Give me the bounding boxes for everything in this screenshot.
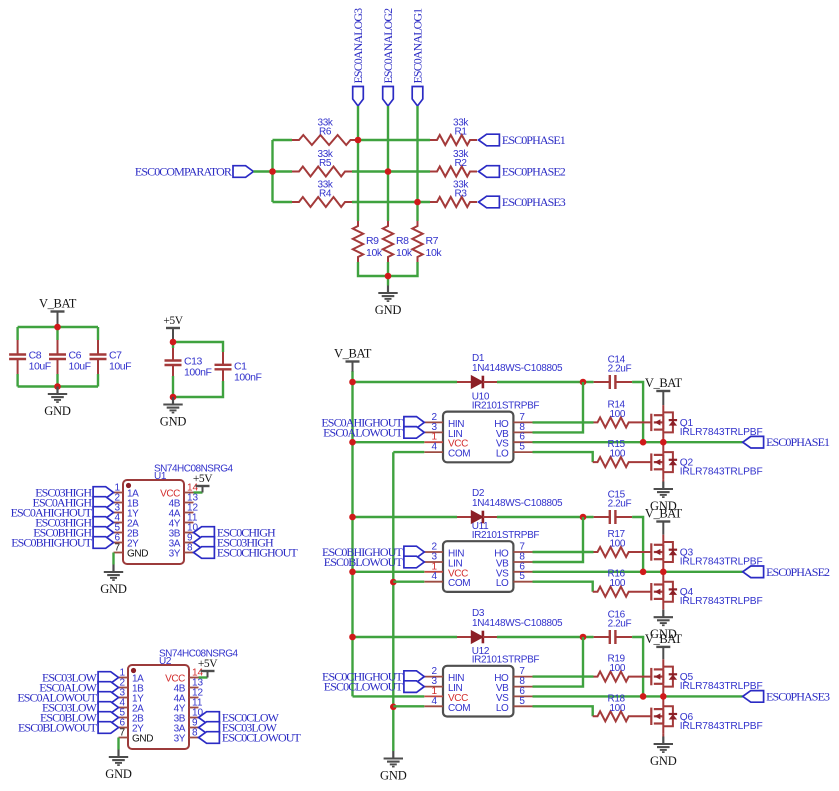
junction phase/elbow — [640, 569, 647, 576]
transistor Q3 — [651, 535, 762, 572]
svg-text:LO: LO — [496, 449, 509, 460]
resistor R9 — [353, 221, 383, 262]
svg-text:ESC0BLOWOUT: ESC0BLOWOUT — [324, 555, 404, 569]
wire V_BAT rail vertical — [351, 371, 353, 696]
node ESC0CHIGHOUT — [322, 670, 424, 684]
wire R6 node to R1 — [358, 139, 430, 141]
node ESC0ALOWOUT — [17, 691, 118, 705]
wire LO elbow — [533, 706, 593, 716]
svg-text:ESC0PHASE1: ESC0PHASE1 — [766, 435, 830, 449]
svg-text:R8: R8 — [396, 235, 409, 247]
svg-text:10uF: 10uF — [109, 361, 131, 373]
wire VB to bootstrap node — [533, 517, 584, 562]
node ESC0CLOWOUT — [199, 731, 302, 745]
svg-text:V_BAT: V_BAT — [334, 347, 372, 361]
svg-text:R7: R7 — [426, 235, 439, 247]
svg-text:ESC0CHIGHOUT: ESC0CHIGHOUT — [217, 546, 298, 560]
power V_BAT (Q1) — [645, 376, 683, 405]
svg-text:3Y: 3Y — [169, 549, 181, 560]
junction — [54, 383, 61, 390]
wire V_BAT rail to diode — [353, 636, 458, 638]
svg-text:5: 5 — [519, 442, 525, 453]
svg-text:ESC0ANALOG3: ESC0ANALOG3 — [351, 8, 365, 84]
node ESC0COMPARATOR — [135, 165, 254, 179]
svg-text:V_BAT: V_BAT — [39, 297, 77, 311]
svg-text:R3: R3 — [455, 189, 468, 200]
svg-text:GND: GND — [100, 582, 127, 596]
svg-text:LO: LO — [496, 578, 509, 589]
node ESC0CHIGH — [194, 526, 277, 540]
U2 pins and pin numbers — [119, 668, 204, 745]
capacitor C14 — [594, 355, 633, 390]
capacitor C7 — [90, 340, 132, 374]
ground (+5V caps) — [160, 397, 187, 429]
svg-text:IR2101STRPBF: IR2101STRPBF — [472, 530, 540, 541]
resistor R16 — [593, 569, 652, 597]
node ESC0ALOW — [39, 681, 118, 695]
node ESC0CLOW — [199, 711, 280, 725]
svg-text:ESC0PHASE3: ESC0PHASE3 — [502, 195, 566, 209]
svg-text:100: 100 — [610, 409, 626, 420]
svg-text:10k: 10k — [366, 247, 383, 259]
capacitor C15 — [594, 490, 633, 525]
capacitor C16 — [594, 610, 633, 645]
svg-text:IRLR7843TRLPBF: IRLR7843TRLPBF — [680, 721, 763, 732]
power +5V (caps) — [163, 315, 183, 342]
resistor R3 — [430, 180, 477, 208]
svg-text:2.2uF: 2.2uF — [608, 619, 632, 630]
junction U11 COM — [390, 579, 397, 586]
svg-text:100nF: 100nF — [234, 372, 262, 384]
diode D1 — [457, 353, 563, 388]
wire cap bank top rail — [18, 326, 98, 328]
wire bottom rail of divider — [358, 262, 418, 276]
wire diode to bootstrap cap — [497, 516, 594, 518]
resistor R19 — [594, 654, 652, 682]
diode D2 — [457, 488, 563, 523]
node ESC03HIGH — [194, 536, 275, 550]
svg-text:7: 7 — [114, 543, 120, 554]
svg-text:R1: R1 — [455, 127, 468, 138]
svg-text:4: 4 — [431, 696, 437, 707]
svg-text:8: 8 — [192, 728, 198, 739]
node ESC0CLOWOUT — [324, 680, 425, 694]
svg-text:100: 100 — [610, 449, 626, 460]
svg-text:R5: R5 — [319, 158, 332, 169]
junction diode row/V_BAT rail — [349, 634, 356, 641]
resistor R17 — [594, 529, 652, 557]
svg-text:GND: GND — [650, 499, 677, 513]
svg-text:IR2101STRPBF: IR2101STRPBF — [472, 655, 540, 666]
svg-text:ESC0ALOWOUT: ESC0ALOWOUT — [323, 425, 403, 439]
wire to R4 — [273, 201, 293, 203]
power V_BAT (cap bank) — [39, 297, 77, 328]
wire ESC0ANALOG3 vertical — [357, 106, 359, 221]
svg-text:COM: COM — [448, 578, 470, 589]
wire to R6 — [273, 139, 293, 141]
junction VCC/V_BAT rail — [349, 569, 356, 576]
svg-text:100: 100 — [610, 663, 626, 674]
power +5V (U2) — [198, 658, 218, 678]
wire VCC to V_BAT rail — [353, 441, 425, 443]
junction — [355, 137, 362, 144]
node ESC0BHIGHOUT — [11, 536, 113, 550]
resistor R18 — [593, 693, 652, 721]
node ESC0ANALOG1 — [411, 8, 425, 106]
junction phase/elbow — [640, 693, 647, 700]
node ESC0PHASE1 — [743, 435, 830, 449]
svg-text:R6: R6 — [319, 127, 332, 138]
node ESC0PHASE3 (top) — [479, 195, 566, 209]
wire pin14 to +5V — [194, 491, 203, 493]
U1 pins and pin numbers — [114, 483, 199, 560]
wire LO elbow — [533, 582, 593, 592]
node ESC0CHIGHOUT — [194, 546, 299, 560]
wire HO to gate resistor — [533, 551, 594, 553]
node ESC0PHASE2 — [743, 565, 830, 579]
svg-text:R9: R9 — [366, 235, 379, 247]
transistor Q6 — [651, 696, 762, 733]
junction — [170, 394, 177, 401]
wire bootstrap cap to phase elbow — [632, 517, 643, 572]
capacitor C6 — [49, 340, 91, 374]
wire C13 bottom stub — [172, 376, 174, 397]
node ESC0ANALOG2 — [381, 8, 395, 106]
node ESC03LOW — [42, 671, 119, 685]
junction — [269, 168, 276, 175]
ground (U2) — [105, 750, 132, 782]
svg-text:ESC0BLOWOUT: ESC0BLOWOUT — [18, 721, 98, 735]
transistor Q2 — [651, 442, 762, 479]
wire +5V bottom rail — [173, 381, 223, 397]
wire pin14 to +5V — [199, 676, 208, 678]
wire phase rail ESC0PHASE2 — [533, 571, 743, 573]
junction VB bootstrap — [580, 514, 587, 521]
svg-text:100: 100 — [610, 539, 626, 550]
resistor R6 — [292, 118, 358, 146]
node ESC03LOW — [199, 721, 278, 735]
diode D3 — [457, 608, 563, 643]
junction diode row/V_BAT rail — [349, 514, 356, 521]
wire ESC0ANALOG2 vertical — [387, 106, 389, 221]
wire VCC to V_BAT rail — [353, 695, 425, 697]
wire phase rail ESC0PHASE3 — [533, 695, 743, 697]
svg-text:4: 4 — [431, 571, 437, 582]
svg-text:8: 8 — [187, 543, 193, 554]
svg-text:2.2uF: 2.2uF — [608, 364, 632, 375]
wire HO to gate resistor — [533, 675, 594, 677]
svg-text:7: 7 — [119, 728, 125, 739]
wire cap bank bottom rail — [18, 385, 98, 387]
svg-text:+5V: +5V — [163, 315, 183, 327]
svg-text:ESC0PHASE2: ESC0PHASE2 — [766, 565, 830, 579]
wire diode to bootstrap cap — [497, 381, 594, 383]
svg-text:ESC0PHASE3: ESC0PHASE3 — [766, 689, 830, 703]
svg-text:GND: GND — [650, 627, 677, 641]
svg-text:GND: GND — [375, 303, 402, 317]
junction U12 COM — [390, 704, 397, 711]
wire COM to COM rail — [393, 705, 424, 707]
ground (U1) — [100, 565, 127, 597]
ground (divider) — [375, 286, 402, 318]
power V_BAT (Q5) — [645, 632, 683, 659]
wire C6 bottom stub — [56, 374, 58, 387]
node ESC0AHIGHOUT — [11, 506, 114, 520]
node ESC0BLOW — [40, 711, 119, 725]
svg-text:ESC0BHIGHOUT: ESC0BHIGHOUT — [11, 536, 92, 550]
wire phase rail ESC0PHASE1 — [533, 441, 743, 443]
svg-text:10uF: 10uF — [29, 361, 51, 373]
op-amp U1 (quad AND gate SN74HC08) — [114, 463, 234, 564]
resistor R7 — [412, 221, 442, 262]
svg-text:ESC0ANALOG2: ESC0ANALOG2 — [381, 8, 395, 84]
wire comparator to R5 — [253, 170, 292, 172]
svg-text:GND: GND — [132, 734, 153, 745]
wire C13 top stub — [172, 342, 174, 348]
svg-text:LO: LO — [496, 703, 509, 714]
svg-text:3Y: 3Y — [174, 734, 186, 745]
svg-text:100: 100 — [610, 703, 626, 714]
svg-text:ESC0CLOWOUT: ESC0CLOWOUT — [222, 731, 302, 745]
capacitor C13 — [165, 348, 212, 379]
wire V_BAT rail to diode — [353, 516, 458, 518]
U11 pins and pin numbers — [424, 542, 532, 590]
transistor Q4 — [651, 572, 762, 609]
svg-text:GND: GND — [44, 404, 71, 418]
wire COM to COM rail — [393, 581, 424, 583]
wire VB to bootstrap node — [533, 382, 584, 432]
svg-text:GND: GND — [127, 549, 148, 560]
junction phase/mosfets — [660, 439, 667, 446]
svg-text:1N4148WS-C108805: 1N4148WS-C108805 — [472, 498, 563, 509]
op-amp U11 (gate driver IR2101) — [424, 521, 539, 592]
wire ESC0ANALOG1 vertical — [416, 106, 418, 221]
svg-text:GND: GND — [105, 767, 132, 781]
wire R5 to R2 — [352, 170, 430, 172]
ground (cap bank) — [44, 387, 71, 419]
node ESC03HIGH — [35, 516, 113, 530]
wire COM/GND rail vertical — [392, 452, 394, 751]
svg-text:10k: 10k — [396, 247, 413, 259]
node ESC0PHASE1 (top) — [479, 133, 566, 147]
svg-text:R2: R2 — [455, 158, 468, 169]
wire COM to COM rail — [393, 451, 424, 453]
ground (Q4) — [650, 610, 677, 642]
resistor R5 — [292, 149, 352, 177]
wire R4 to R3 — [352, 201, 430, 203]
svg-text:5: 5 — [519, 696, 525, 707]
wire Q6 source — [662, 734, 664, 737]
node ESC0AHIGH — [33, 496, 114, 510]
svg-text:5: 5 — [519, 571, 525, 582]
junction VCC/V_BAT rail — [349, 439, 356, 446]
junction — [54, 324, 61, 331]
junction — [385, 273, 392, 280]
U10 pins and pin numbers — [424, 412, 532, 460]
node ESC0PHASE3 — [743, 689, 830, 703]
svg-text:R4: R4 — [319, 189, 332, 200]
junction VB bootstrap — [580, 634, 587, 641]
svg-text:GND: GND — [650, 754, 677, 768]
svg-text:ESC0PHASE2: ESC0PHASE2 — [502, 165, 566, 179]
resistor R2 — [430, 149, 477, 177]
svg-text:IRLR7843TRLPBF: IRLR7843TRLPBF — [680, 467, 763, 478]
svg-text:IR2101STRPBF: IR2101STRPBF — [472, 400, 540, 411]
ground (Q6) — [650, 737, 677, 769]
resistor R8 — [383, 221, 413, 262]
wire bootstrap cap to phase elbow — [632, 637, 643, 696]
junction VB bootstrap — [580, 379, 587, 386]
junction — [170, 339, 177, 346]
transistor Q5 — [651, 659, 762, 696]
wire pin7 to gnd — [117, 738, 119, 750]
op-amp U2 (quad AND gate SN74HC08) — [119, 648, 239, 749]
svg-text:ESC0ANALOG1: ESC0ANALOG1 — [411, 8, 425, 84]
wire pin7 to gnd — [112, 553, 114, 565]
wire bootstrap cap to phase elbow — [632, 382, 643, 442]
node ESC0AHIGHOUT — [321, 415, 424, 429]
svg-text:1N4148WS-C108805: 1N4148WS-C108805 — [472, 618, 563, 629]
junction phase/mosfets — [660, 693, 667, 700]
op-amp U12 (gate driver IR2101) — [424, 646, 539, 717]
wire LO elbow — [533, 452, 593, 462]
svg-text:100nF: 100nF — [184, 367, 212, 379]
power V_BAT (driver rail) — [334, 347, 372, 372]
node ESC0BLOWOUT — [18, 721, 119, 735]
wire +5V top rail — [173, 342, 223, 352]
power +5V (U1) — [193, 473, 213, 493]
svg-text:+5V: +5V — [193, 473, 213, 485]
junction — [385, 168, 392, 175]
node ESC0PHASE2 (top) — [479, 165, 566, 179]
op-amp U10 (gate driver IR2101) — [424, 392, 539, 463]
node ESC0BLOWOUT — [324, 555, 425, 569]
svg-text:COM: COM — [448, 703, 470, 714]
svg-text:ESC0COMPARATOR: ESC0COMPARATOR — [135, 165, 232, 179]
wire C7 top stub — [97, 327, 99, 340]
svg-text:ESC0PHASE1: ESC0PHASE1 — [502, 133, 566, 147]
resistor R1 — [430, 118, 477, 146]
resistor R15 — [593, 439, 652, 467]
node ESC0ANALOG3 — [351, 8, 365, 106]
capacitor C8 — [9, 340, 51, 374]
wire C6 top stub — [56, 327, 58, 340]
svg-text:2.2uF: 2.2uF — [608, 499, 632, 510]
node ESC03LOW — [42, 701, 119, 715]
junction phase/elbow — [640, 439, 647, 446]
resistor R14 — [594, 399, 652, 427]
wire R8 to gnd — [387, 262, 389, 286]
svg-text:4: 4 — [431, 442, 437, 453]
wire diode to bootstrap cap — [497, 636, 594, 638]
svg-text:ESC0CLOWOUT: ESC0CLOWOUT — [324, 680, 404, 694]
node ESC0BHIGHOUT — [322, 545, 424, 559]
svg-text:V_BAT: V_BAT — [645, 376, 683, 390]
wire Q2 source — [662, 479, 664, 481]
resistor R4 — [292, 180, 352, 208]
junction diode row/V_BAT rail — [349, 379, 356, 386]
svg-text:GND: GND — [160, 415, 187, 429]
svg-text:GND: GND — [380, 769, 407, 783]
wire VCC to V_BAT rail — [353, 571, 425, 573]
svg-text:1N4148WS-C108805: 1N4148WS-C108805 — [472, 363, 563, 374]
wire HO to gate resistor — [533, 421, 594, 423]
ground (COM rail) — [380, 751, 407, 783]
svg-text:IRLR7843TRLPBF: IRLR7843TRLPBF — [680, 596, 763, 607]
wire V_BAT rail to diode — [353, 381, 458, 383]
node ESC0BHIGH — [33, 526, 113, 540]
wire C8 top stub — [16, 327, 18, 340]
junction phase/mosfets — [660, 569, 667, 576]
svg-text:+5V: +5V — [198, 658, 218, 670]
svg-text:10k: 10k — [426, 247, 443, 259]
power V_BAT (Q3) — [645, 507, 683, 535]
wire left elbow vertical — [271, 140, 273, 202]
node ESC03HIGH — [35, 486, 113, 500]
wire C7 bottom stub — [97, 374, 99, 387]
junction — [414, 199, 421, 206]
node ESC0ALOWOUT — [323, 425, 424, 439]
svg-text:COM: COM — [448, 449, 470, 460]
wire Q4 source — [662, 608, 664, 611]
U12 pins and pin numbers — [424, 666, 532, 714]
wire VB to bootstrap node — [533, 637, 584, 687]
capacitor C1 — [215, 352, 262, 384]
transistor Q1 — [651, 405, 762, 442]
svg-text:10uF: 10uF — [69, 361, 91, 373]
wire C8 bottom stub — [16, 374, 18, 387]
ground (Q2) — [650, 482, 677, 514]
svg-text:100: 100 — [610, 578, 626, 589]
